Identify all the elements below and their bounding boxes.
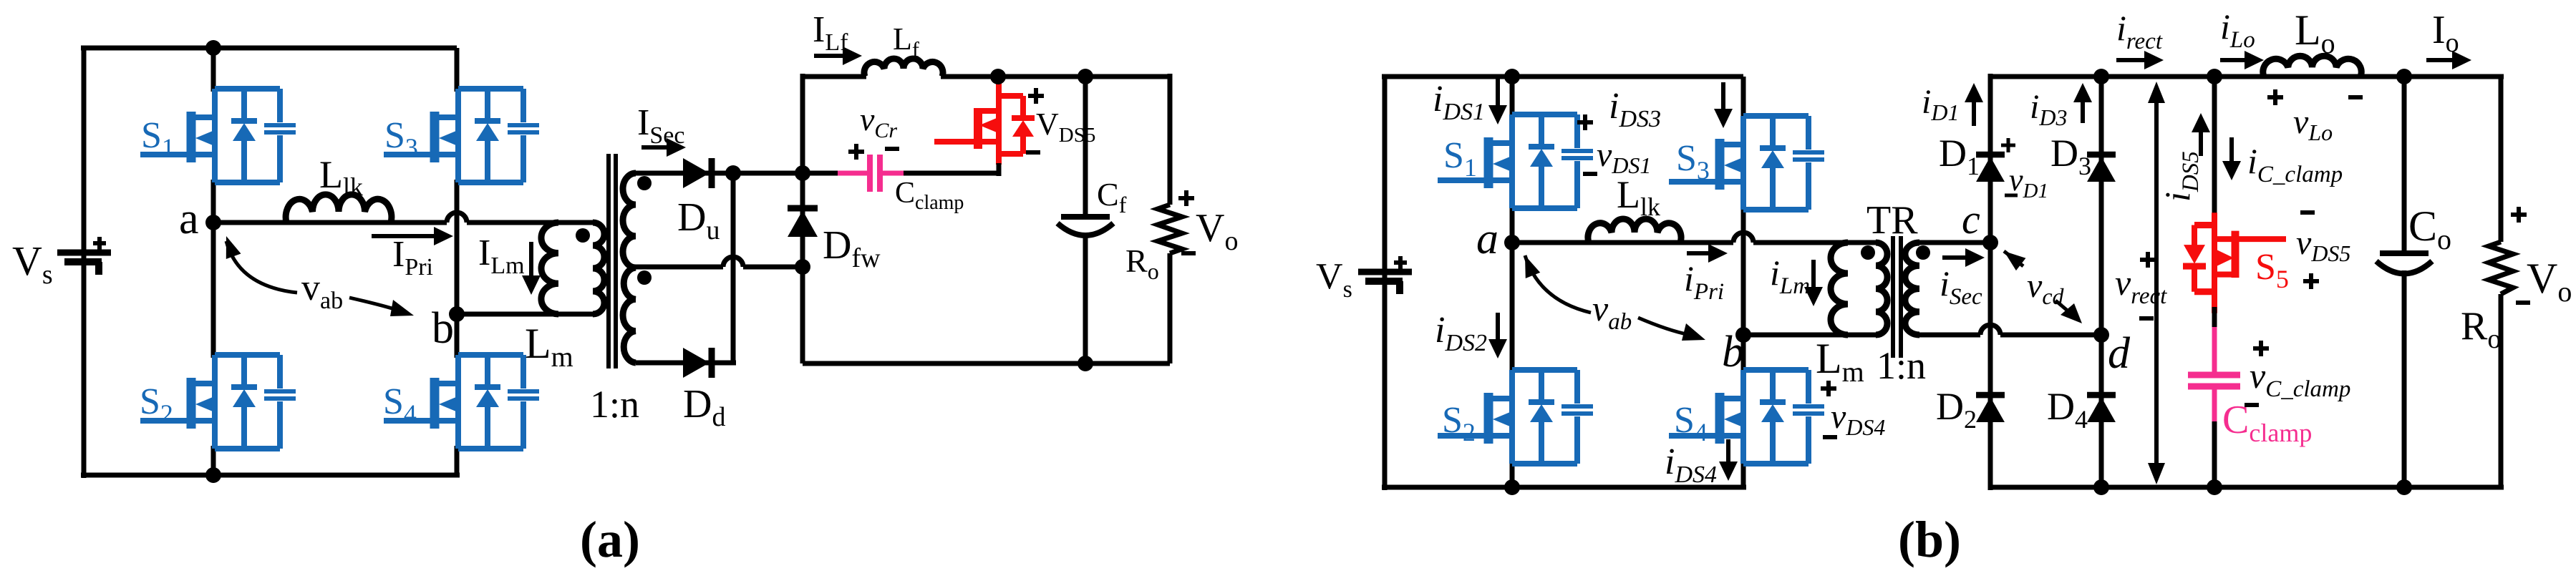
plus sign vDS5 (a) [1028, 88, 1044, 104]
transistor S2 (a) [140, 355, 296, 449]
svg-text:(a): (a) [580, 511, 640, 568]
node: Cf top (a) [1078, 69, 1093, 84]
measurement arrow vrect (b) [2154, 100, 2159, 465]
transistor S1 (b) [1438, 114, 1593, 208]
svg-text:b: b [432, 304, 454, 353]
transformer primary polarity dot (a) [576, 228, 590, 243]
wire: S5 source to Cclamp black (b) [2212, 307, 2217, 328]
node c (b) [1982, 235, 1998, 250]
transistor S2 (b) [1438, 370, 1593, 464]
inductor Llk (b) [1588, 219, 1681, 243]
node b (b) [1735, 327, 1751, 343]
wire: secondary bottom to node d with hop (b) [1919, 333, 1980, 338]
wire: output bottom rail (a) [803, 361, 1170, 366]
resistor Ro (a) [1168, 74, 1173, 205]
wire hop over S3 leg (b) [1733, 233, 1753, 243]
wire: Cclamp to bottom rail (b) [2212, 421, 2217, 487]
wire: S5 source to clamp wire (a) [997, 163, 1002, 176]
svg-text:1:n: 1:n [1877, 344, 1926, 387]
arrow Io (b) [2426, 58, 2454, 62]
node: Cf bottom (a) [1078, 356, 1093, 371]
node d (b) [2093, 327, 2109, 343]
node: top rail junction S1 leg (a) [205, 40, 221, 56]
arrow ISec (a) [641, 145, 668, 150]
svg-text:a: a [1476, 215, 1498, 263]
svg-text:(b): (b) [1898, 511, 1961, 568]
inductor Llk (a) [286, 195, 392, 223]
node: Du cathode junction (a) [725, 165, 741, 181]
transformer primary winding (a) [593, 223, 604, 314]
node: Co leg bottom (b) [2396, 479, 2412, 495]
arrow iD3 (b) [2081, 101, 2085, 123]
wire: node b to transformer (a) [457, 312, 594, 317]
inductor Lm winding (b) [1831, 243, 1848, 335]
transformer secondary lower winding (a) [623, 268, 636, 363]
diode D1 (b) [1976, 155, 2005, 182]
transformer core (b) [1891, 236, 1895, 358]
wire: top rail (a) [81, 46, 457, 51]
inductor Lo (b) [2360, 74, 2504, 79]
secondary upper polarity dot (a) [637, 176, 652, 190]
minus sign vCr (a) [885, 147, 899, 151]
wire: clamp top rail (a) [803, 74, 866, 79]
wire: rectifier top rail (b) [1990, 74, 2504, 79]
svg-text:TR: TR [1866, 198, 1918, 243]
node a (b) [1504, 235, 1520, 250]
wire hop (a) center tap over rectifier link [723, 257, 743, 267]
capacitor Cf (a) [1083, 77, 1088, 217]
arrow iDS3 (b) [1721, 82, 1725, 110]
arrow ILm (a) [529, 242, 533, 277]
node: clamp leg bottom (b) [2207, 479, 2222, 495]
svg-text:d: d [2108, 329, 2131, 378]
inductor Lf (a) [864, 59, 943, 77]
wire: node a to transformer with hop over S3 leg (a) [213, 220, 447, 225]
voltage source Vs (b) [1358, 256, 1412, 294]
transformer core (a) [606, 154, 611, 368]
secondary lower polarity dot (a) [637, 270, 652, 285]
wire hop (a) at S3 leg [447, 213, 467, 223]
arrow iDS2 (b) [1496, 313, 1500, 341]
wire: S1-S2 leg (a) [211, 48, 216, 92]
wire: secondary top to node c (b) [1919, 240, 1990, 245]
transistor S5 (a) [934, 74, 1035, 165]
arrow iPri (b) [1687, 251, 1710, 255]
inductor Lm magnetizing winding (a) [541, 223, 558, 314]
transistor S4 (a) [384, 355, 539, 449]
transistor S3 (a) [384, 89, 539, 182]
wire: clamp capacitor branch (a) [803, 171, 838, 176]
diode D4 (b) [2087, 395, 2116, 422]
capacitor Cclamp (a) [838, 171, 867, 176]
node: S5 drain on top rail (a) [990, 69, 1006, 84]
capacitor Cclamp (b) [2212, 327, 2217, 372]
node a (a) [205, 215, 221, 230]
arrow iD1 (b) [1972, 101, 1976, 126]
node b (a) [449, 306, 465, 322]
transformer secondary winding (b) [1905, 243, 1919, 335]
svg-text:c: c [1962, 196, 1980, 243]
arrow iLm (b) [1811, 260, 1816, 288]
wire: S3-S4 leg (a) [455, 48, 460, 92]
arrow irect (b) [2116, 58, 2146, 62]
transistor S3 (b) [1669, 116, 1824, 210]
wire: S3-S4 leg (b) [1741, 77, 1746, 119]
node: center tap junction (a) [795, 259, 810, 275]
node: d-leg bottom (b) [2093, 479, 2109, 495]
minus sign Vo (a) [1181, 251, 1196, 255]
wire: output bottom rail (b) [1990, 485, 2504, 490]
minus sign vDS5 (a) [1026, 150, 1040, 155]
wire: top rail bridge (b) [1382, 74, 1743, 79]
arrow iC_clamp (b) [2229, 137, 2234, 162]
secondary polarity dot (b) [1916, 245, 1930, 260]
node: rectifier output (a) [795, 165, 810, 181]
wire: secondary top to rectifier (a) [636, 171, 803, 176]
wire hop over c-leg (b) [1980, 325, 2000, 335]
transistor S4 (b) [1669, 370, 1824, 464]
wire: left rail (a) with source branch [82, 46, 87, 478]
arrow IPri (a) [372, 234, 435, 238]
arrow ILf (a) [814, 54, 844, 58]
wire: Dfw leg (a) [800, 74, 805, 363]
arrow iDS1 (b) [1496, 79, 1500, 107]
resistor Ro (b) [2499, 77, 2504, 242]
plus sign vCr (a) [848, 144, 864, 160]
svg-text:1:n: 1:n [590, 383, 639, 426]
diode Dfw (a) [788, 208, 818, 237]
diode D3 (b) [2087, 155, 2116, 182]
diode Dd (a) [683, 348, 712, 378]
wire: node a to transformer with hop (b) [1512, 240, 1733, 245]
node: bottom rail junction (b) [1504, 479, 1520, 495]
wire: left rail (b) [1383, 74, 1388, 490]
plus sign Vo (a) [1178, 190, 1194, 206]
transistor S5 (b) [2183, 213, 2286, 313]
wire: secondary bottom (a) [636, 361, 736, 366]
primary polarity dot (b) [1861, 245, 1875, 260]
arrow iLo (b) [2220, 58, 2246, 62]
wire: S1-S2 leg (b) [1510, 77, 1515, 117]
svg-text:b: b [1722, 328, 1744, 376]
node: top rail junction (b) [1504, 69, 1520, 84]
capacitor Co (b) [2402, 77, 2407, 253]
arrow iSec (b) [1942, 255, 1967, 260]
arrow iDS5 (b) [2199, 131, 2203, 156]
svg-text:a: a [179, 195, 199, 243]
node: S5 leg top (b) [2207, 69, 2222, 84]
transformer primary winding (b) [1876, 243, 1887, 335]
diode Du (a) [683, 158, 712, 188]
voltage source Vs (a) [57, 237, 111, 275]
transformer secondary upper winding (a) [623, 173, 636, 268]
arrow iDS4 (b) [1726, 439, 1730, 463]
wire: bottom rail (a) [81, 473, 460, 478]
wire: center tap to Dfw leg with hop (a) [636, 265, 723, 270]
node: d-leg top (b) [2093, 69, 2109, 84]
node: bottom rail junction S2 leg (a) [205, 467, 221, 483]
wire: node b to transformer (b) [1743, 333, 1877, 338]
node: Co leg top (b) [2396, 69, 2412, 84]
wire: rectifier d-leg (b) [2099, 77, 2104, 487]
transistor S1 (a) [140, 89, 296, 182]
wire: rectifier vertical link (a) [731, 173, 736, 363]
wire: rectifier c-leg (b) [1988, 74, 1993, 490]
wire: bottom rail bridge (b) [1382, 485, 1746, 490]
wire: S5-Cclamp leg upper (b) [2212, 77, 2217, 215]
diode D2 (b) [1976, 395, 2005, 422]
